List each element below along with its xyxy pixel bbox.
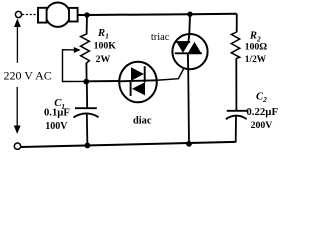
svg-text:100K: 100K	[94, 40, 117, 51]
wire (terminal T1 to motor)	[22, 14, 39, 16]
wire (C2 to bottom rail corner)	[235, 116, 237, 143]
wire (right branch down from top corner)	[236, 14, 238, 32]
svg-text:200V: 200V	[251, 120, 273, 131]
svg-text:100Ω: 100Ω	[245, 42, 268, 53]
potentiometer R1	[81, 34, 90, 64]
wire (top rail from node A to right corner)	[87, 14, 237, 15]
arrow (AC source upper)	[14, 19, 21, 63]
capacitor C1	[74, 108, 99, 117]
junction node B (top of triac)	[187, 12, 192, 17]
svg-text:0.1µF: 0.1µF	[44, 108, 70, 119]
svg-text:220 V AC: 220 V AC	[4, 69, 52, 83]
junction (triac at bottom rail)	[186, 141, 192, 147]
arrow (AC source lower)	[14, 87, 21, 134]
terminal T2 (bottom AC input)	[14, 143, 20, 149]
svg-text:0.22µF: 0.22µF	[246, 106, 278, 118]
wire (bottom rail)	[21, 142, 236, 147]
triac Q1	[172, 34, 207, 69]
capacitor C2	[226, 111, 248, 119]
wire (node B down to triac)	[188, 14, 191, 34]
junction (C1 at bottom rail)	[85, 143, 91, 149]
wire (node C to diac)	[87, 80, 120, 82]
wire (diac to triac gate)	[157, 68, 184, 81]
terminal T1 (top AC input)	[15, 11, 21, 17]
junction node C (wiper/C1/diac)	[83, 79, 89, 85]
junction node A (top of R1)	[84, 12, 89, 17]
wire (R1 bottom to node C)	[85, 63, 87, 82]
wire (node C down to C1)	[86, 82, 88, 108]
wiper arrow of R1	[63, 47, 87, 82]
svg-text:diac: diac	[133, 116, 152, 127]
wire (triac to bottom rail)	[187, 69, 190, 144]
svg-text:100V: 100V	[45, 121, 68, 132]
svg-text:2W: 2W	[96, 54, 111, 65]
wire (node A down to R1)	[86, 15, 88, 35]
svg-text:1/2W: 1/2W	[245, 55, 267, 65]
svg-text:triac: triac	[151, 32, 170, 43]
diac D1	[119, 62, 157, 103]
resistor R2	[231, 32, 239, 59]
motor M1 (load)	[38, 3, 78, 27]
wire (motor to node A)	[78, 14, 87, 16]
wire (C1 to bottom rail)	[86, 114, 89, 146]
wire (R2 to C2)	[235, 58, 237, 110]
